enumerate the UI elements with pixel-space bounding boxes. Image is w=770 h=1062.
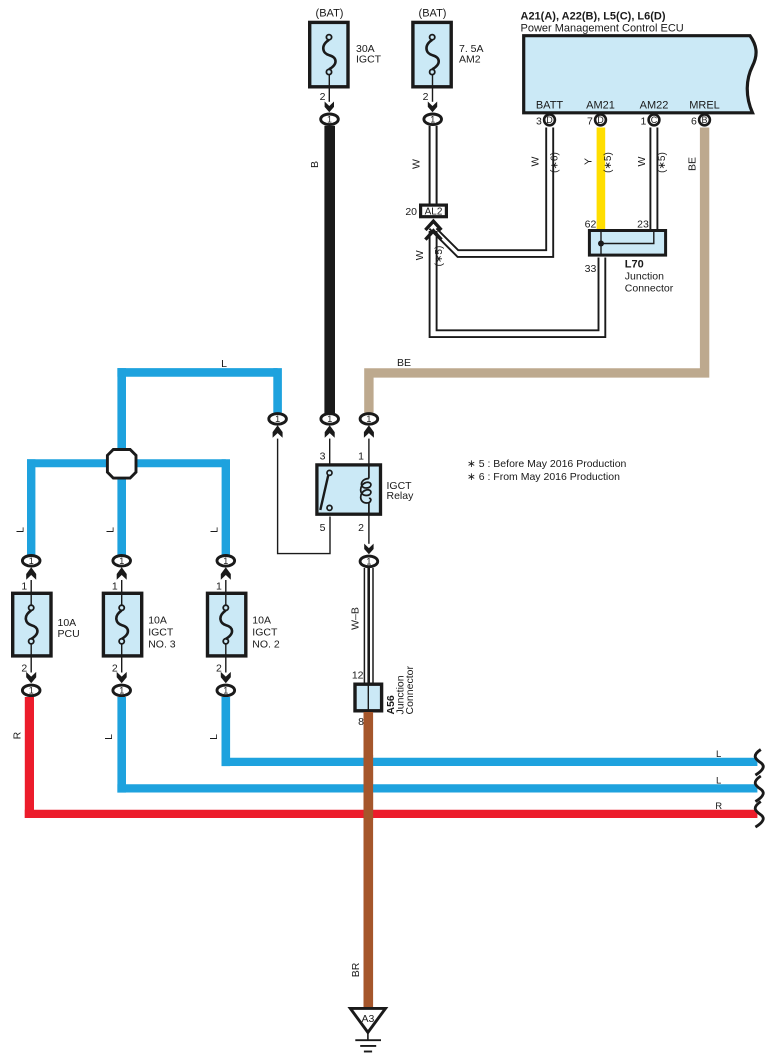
svg-text:IGCT: IGCT [252,627,278,639]
svg-text:D: D [546,115,553,125]
ground bar 1 [355,1039,381,1041]
svg-text:Connector: Connector [404,666,416,715]
wire W from AL2 down to L70 pin 33 (white double line) [430,231,606,337]
IGCT relay box [317,465,381,514]
ground bar 3 [364,1051,372,1053]
fuse PCU pin 1 lead [30,580,32,593]
wire L (blue) horizontal run 2 to right edge [117,784,757,792]
connector terminal 1 below fuse 30A [321,114,339,125]
svg-text:1: 1 [327,414,332,424]
svg-text:Power Management Control ECU: Power Management Control ECU [521,23,684,35]
svg-text:BE: BE [397,357,411,369]
wire L (blue) horizontal run 1 to right edge [222,758,758,766]
svg-text:12: 12 [352,670,364,682]
thin wire from relay pin 2 down [368,515,370,544]
fuse IGCT NO.2 pin 2 lead [225,644,227,673]
svg-text:BATT: BATT [536,100,564,112]
double chevron arrow below AL2 [425,221,441,239]
wire W (*6) from ECU BATT down-left to AL2 (white double line) [429,128,553,257]
svg-text:∗ 6 : From May 2016 Production: ∗ 6 : From May 2016 Production [467,471,620,483]
svg-text:D: D [597,115,604,125]
wire L (blue) middle vertical below octagon [117,462,126,555]
svg-text:6: 6 [691,115,697,127]
wire BE (beige) from ECU MREL down and left to relay connector [369,128,705,413]
svg-text:AM22: AM22 [640,100,669,112]
svg-text:3: 3 [536,115,542,127]
svg-text:B: B [701,115,707,125]
wire B (black) from fuse 30A to relay connector [324,126,335,413]
svg-text:1: 1 [223,556,228,566]
svg-text:1: 1 [29,686,34,696]
connector terminal 1 (black wire to relay pin 3) [321,414,339,425]
thin wire from BE connector to relay pin 1 [368,439,370,464]
fuse PCU pin 2 lead [30,644,32,673]
fuse 30A IGCT element symbol [323,35,335,75]
connector terminal 1 below fuse PCU [22,685,40,696]
svg-text:Y: Y [582,158,594,165]
ground stem [367,1032,369,1040]
junction connector L70 box [589,231,665,256]
svg-text:R: R [12,731,24,739]
connector arrow below fuse 30A [325,102,334,113]
svg-text:1: 1 [119,556,124,566]
svg-text:L: L [716,776,721,787]
connector arrow below fuse 7.5A [428,102,437,113]
continuation squiggle run 3 [755,802,763,828]
fuse 10A IGCT NO.3 element symbol [116,593,128,644]
connector arrow below terminal (blue) [273,425,283,438]
svg-text:(BAT): (BAT) [419,8,447,20]
svg-text:BR: BR [350,962,362,977]
connector arrow below terminal (black) [325,425,335,438]
svg-text:1: 1 [430,115,435,125]
connector terminal 1 (BE wire to relay pin 1) [360,414,378,425]
connector arrow below terminal (PCU) [26,567,36,580]
fuse IGCT NO.2 pin 1 lead [225,580,227,593]
fuse 7.5A pin 2 lead wire [432,75,434,102]
svg-text:W: W [414,250,426,260]
svg-text:1: 1 [21,581,27,593]
connector arrow above terminal (relay output) [364,544,373,555]
svg-text:2: 2 [320,91,326,103]
svg-text:L: L [103,734,115,740]
svg-text:1: 1 [327,115,332,125]
fuse 10A IGCT NO.2 element symbol [220,593,232,644]
wire L (blue) from fuse IGCT NO.3 down [117,697,126,793]
connector terminal 1 (blue wire to relay pin 5 circuit) [269,414,287,425]
svg-text:IGCT: IGCT [148,627,174,639]
svg-text:Junction: Junction [625,271,664,283]
wire L (blue) left branch vertical [27,459,35,555]
connector arrow below terminal (BE) [364,425,374,438]
fuse IGCT NO.3 pin 1 lead [121,580,123,593]
svg-text:AM2: AM2 [459,54,481,66]
svg-text:5: 5 [320,522,326,534]
wire BR (brown) crossing overlay [363,755,373,820]
connector terminal 1 above fuse IGCT NO.2 [217,556,235,567]
svg-text:(∗5): (∗5) [434,246,445,267]
svg-text:IGCT: IGCT [356,54,382,66]
fuse 10A IGCT NO.3 body [103,593,141,656]
wire Y (yellow) from ECU AM21 to L70 pin 62 [597,128,606,231]
connector terminal 1 below fuse IGCT NO.2 [217,685,235,696]
svg-text:Relay: Relay [387,490,415,502]
connector arrow below terminal (IGCT NO.3) [117,567,127,580]
wire L (blue) from fuse IGCT NO.2 down [222,697,231,766]
svg-text:2: 2 [423,91,429,103]
svg-text:BE: BE [687,157,699,171]
svg-text:1: 1 [358,451,364,463]
wire W (*5) from ECU AM22 to L70 pin 23 (white double line) [650,128,657,231]
svg-text:1: 1 [366,414,371,424]
svg-text:NO. 3: NO. 3 [148,639,176,651]
svg-text:1: 1 [366,557,371,567]
octagon junction node [107,450,136,479]
connector terminal 1 above fuse IGCT NO.3 [113,556,131,567]
fuse 10A IGCT NO.2 body [208,593,246,656]
svg-text:2: 2 [358,522,364,534]
svg-text:1: 1 [216,581,222,593]
svg-text:3: 3 [320,451,326,463]
svg-text:L: L [105,527,117,533]
connector terminal 1 below fuse IGCT NO.3 [113,685,131,696]
connector arrow below fuse IGCT NO.2 [221,672,231,683]
svg-text:1: 1 [29,556,34,566]
wire L (blue) vertical from corner down to octagon junction [117,368,126,464]
svg-text:L70: L70 [625,259,644,271]
fuse 30A IGCT body [310,22,348,86]
connector arrow below fuse PCU [26,672,36,683]
svg-text:1: 1 [112,581,118,593]
svg-text:A3: A3 [361,1013,374,1025]
continuation squiggle run 1 [755,750,763,776]
thin wire from blue connector down and right to relay pin 5 [278,439,330,554]
svg-text:(∗5): (∗5) [657,152,668,173]
svg-text:W: W [411,159,423,169]
L70 internal junction dot [598,241,604,247]
svg-text:B: B [309,161,321,168]
fuse 30A pin 2 lead wire [328,75,330,102]
wire L (blue) horizontal run to relay branch [117,368,277,377]
wire BR (brown) from A56 to ground A3 [363,712,373,1010]
relay coil [361,467,371,514]
svg-text:PCU: PCU [58,628,80,640]
svg-text:10A: 10A [252,615,271,627]
svg-text:(∗5): (∗5) [603,152,614,173]
connector terminal 1 above fuse PCU [22,556,40,567]
wire L (blue) right branch vertical [222,459,230,555]
fuse 10A PCU element symbol [26,593,38,644]
fuse 7.5A AM2 body [413,22,451,86]
wire R (red) from fuse PCU down [25,697,34,818]
svg-text:C: C [651,115,658,125]
fuse IGCT NO.3 pin 2 lead [121,644,123,673]
svg-text:AL2: AL2 [425,206,443,217]
A56 internal divider [367,684,369,711]
svg-text:Connector: Connector [625,283,674,295]
svg-text:W: W [530,156,542,166]
svg-text:33: 33 [585,263,597,275]
wire W (white) from fuse 7.5A to AL2 [430,126,437,204]
connector terminal 1 below fuse 7.5A [424,114,442,125]
svg-text:AM21: AM21 [586,100,615,112]
svg-text:L: L [716,749,721,760]
svg-text:1: 1 [223,686,228,696]
svg-text:L: L [221,358,227,370]
svg-text:1: 1 [275,414,280,424]
svg-text:R: R [715,801,722,812]
connector arrow below terminal (IGCT NO.2) [221,567,231,580]
svg-text:A21(A), A22(B), L5(C), L6(D): A21(A), A22(B), L5(C), L6(D) [521,11,666,23]
svg-text:∗ 5 : Before May 2016 Producti: ∗ 5 : Before May 2016 Production [467,458,627,470]
svg-text:W–B: W–B [350,607,362,630]
thin wire from black connector to relay pin 3 [329,439,331,464]
relay switch contacts [320,470,332,510]
ground A3 triangle [350,1008,385,1032]
svg-text:1: 1 [119,686,124,696]
junction connector A56 box [355,684,382,711]
svg-text:62: 62 [585,219,597,231]
svg-text:20: 20 [405,206,417,218]
L70 internal bus [601,232,654,255]
svg-text:7: 7 [587,115,593,127]
svg-text:10A: 10A [148,615,167,627]
svg-text:8: 8 [358,716,364,728]
svg-text:L: L [208,734,220,740]
wire L (blue) horizontal distribution run [27,459,226,467]
svg-text:L: L [14,527,26,533]
wire R (red) horizontal run to right edge [25,810,758,818]
wire L (blue) vertical drop to connector [273,368,282,413]
svg-text:L: L [209,527,221,533]
svg-text:1: 1 [641,115,647,127]
svg-text:W: W [636,156,648,166]
continuation squiggle run 2 [755,776,763,802]
fuse 7.5A AM2 element symbol [426,35,438,75]
svg-text:23: 23 [637,219,649,231]
connector AL2 [421,205,447,217]
ECU Power Management Control ECU box [524,36,756,113]
connector terminal 1 (relay output) [360,556,378,567]
connector arrow below fuse IGCT NO.3 [117,672,127,683]
wire W-B (white-black) from relay to A56 [364,568,373,684]
ground bar 2 [360,1045,376,1047]
fuse 10A PCU body [13,593,51,656]
svg-text:NO. 2: NO. 2 [252,639,280,651]
svg-text:(∗6): (∗6) [550,152,561,173]
svg-text:(BAT): (BAT) [316,8,344,20]
svg-text:MREL: MREL [689,100,720,112]
